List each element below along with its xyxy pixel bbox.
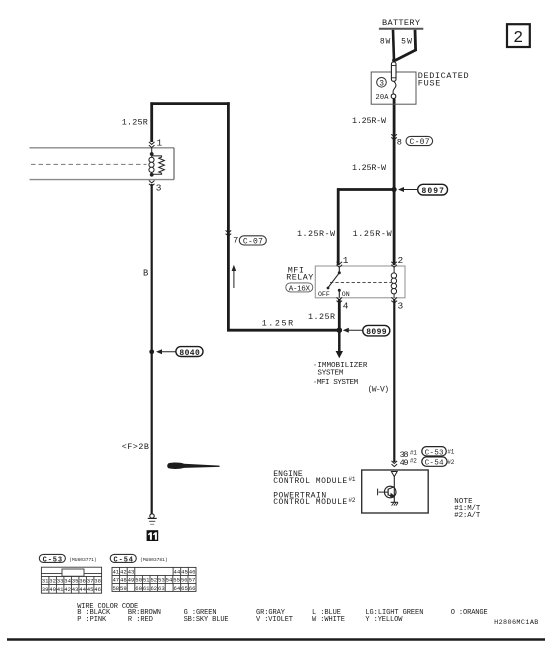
svg-text:#2: #2 (447, 459, 454, 466)
svg-text:48: 48 (120, 577, 127, 584)
svg-text:#1: #1 (410, 450, 417, 457)
svg-text:O :ORANGE: O :ORANGE (451, 609, 488, 617)
svg-text:62: 62 (150, 585, 157, 592)
svg-text:#1: #1 (447, 449, 454, 456)
svg-text:1.25R-W: 1.25R-W (352, 116, 387, 126)
svg-text:65: 65 (181, 585, 188, 592)
svg-text:8W: 8W (380, 37, 391, 46)
svg-text:64: 64 (174, 585, 181, 592)
svg-text:1.25R: 1.25R (308, 312, 335, 322)
svg-text:1: 1 (343, 255, 349, 266)
svg-text:31: 31 (42, 578, 49, 585)
svg-text:CONTROL MODULE: CONTROL MODULE (273, 498, 347, 507)
svg-text:20A: 20A (376, 94, 390, 102)
svg-text:(W-V): (W-V) (368, 385, 389, 394)
svg-text:66: 66 (189, 585, 196, 592)
svg-text:43: 43 (72, 586, 79, 593)
svg-text:Y :YELLOW: Y :YELLOW (365, 616, 403, 624)
svg-text:1.25R-W: 1.25R-W (353, 229, 393, 239)
svg-text:53: 53 (158, 577, 165, 584)
svg-text:(MU803771): (MU803771) (69, 557, 97, 563)
svg-text:2: 2 (513, 28, 523, 47)
svg-text:44: 44 (79, 586, 86, 593)
svg-text:41: 41 (57, 586, 64, 593)
svg-text:#2: #2 (349, 497, 356, 504)
svg-text:41: 41 (112, 568, 119, 575)
svg-text:C-53: C-53 (43, 556, 63, 564)
svg-text:RELAY: RELAY (286, 273, 313, 283)
svg-text:4: 4 (343, 301, 349, 312)
svg-text:34: 34 (64, 578, 71, 585)
svg-text:52: 52 (150, 577, 157, 584)
svg-text:58: 58 (112, 585, 119, 592)
svg-text:<F>2B: <F>2B (122, 442, 149, 452)
svg-text:BATTERY: BATTERY (382, 18, 420, 28)
svg-text:63: 63 (158, 585, 165, 592)
svg-text:C-53: C-53 (425, 449, 444, 457)
svg-text:38: 38 (94, 578, 101, 585)
svg-text:51: 51 (143, 577, 150, 584)
svg-text:49: 49 (128, 577, 135, 584)
svg-text:W :WHITE: W :WHITE (312, 616, 345, 624)
svg-text:C-07: C-07 (243, 237, 263, 246)
svg-text:47: 47 (112, 577, 119, 584)
svg-text:42: 42 (64, 586, 71, 593)
svg-text:39: 39 (42, 586, 49, 593)
svg-text:B: B (143, 268, 148, 278)
svg-text:H2806MC1AB: H2806MC1AB (494, 619, 538, 627)
svg-text:60: 60 (135, 585, 142, 592)
svg-text:43: 43 (128, 568, 135, 575)
svg-text:5W: 5W (401, 37, 412, 46)
svg-text:FUSE: FUSE (418, 79, 441, 89)
svg-text:8040: 8040 (179, 349, 200, 358)
svg-text:2: 2 (398, 255, 404, 266)
svg-text:8097: 8097 (422, 187, 445, 196)
svg-text:3: 3 (379, 79, 384, 88)
svg-text:3: 3 (398, 301, 404, 312)
svg-text:46: 46 (94, 586, 101, 593)
svg-text:C-07: C-07 (410, 138, 430, 147)
svg-text:1.25R-W: 1.25R-W (297, 229, 336, 239)
svg-text:57: 57 (189, 577, 196, 584)
svg-text:56: 56 (181, 577, 188, 584)
svg-text:·MFI SYSTEM: ·MFI SYSTEM (313, 379, 359, 387)
svg-text:3: 3 (156, 183, 162, 194)
svg-text:54: 54 (166, 577, 173, 584)
svg-text:1.25R: 1.25R (262, 319, 293, 329)
svg-text:36: 36 (79, 578, 86, 585)
svg-text:#1: #1 (349, 476, 356, 483)
svg-text:(MU803781): (MU803781) (140, 557, 168, 563)
svg-text:1.25R: 1.25R (122, 117, 148, 127)
svg-text:R :RED: R :RED (128, 616, 153, 624)
svg-text:8099: 8099 (366, 328, 387, 337)
svg-text:#2:A/T: #2:A/T (454, 512, 481, 520)
svg-text:1.25R-W: 1.25R-W (352, 163, 387, 173)
svg-text:35: 35 (72, 578, 79, 585)
svg-text:CONTROL MODULE: CONTROL MODULE (273, 477, 347, 486)
svg-text:A-16X: A-16X (289, 285, 311, 293)
svg-text:C-54: C-54 (425, 460, 444, 468)
svg-text:50: 50 (135, 577, 142, 584)
svg-text:45: 45 (181, 568, 188, 575)
svg-text:OFF: OFF (318, 291, 330, 298)
svg-text:45: 45 (87, 586, 94, 593)
svg-text:8: 8 (397, 137, 402, 147)
svg-text:59: 59 (120, 585, 127, 592)
svg-text:SYSTEM: SYSTEM (317, 370, 343, 378)
svg-text:49: 49 (400, 458, 409, 468)
svg-text:#2: #2 (410, 458, 417, 465)
svg-text:C-54: C-54 (114, 556, 134, 564)
svg-text:32: 32 (49, 578, 56, 585)
svg-text:46: 46 (189, 568, 196, 575)
svg-text:V :VIOLET: V :VIOLET (256, 616, 293, 624)
svg-text:P :PINK: P :PINK (77, 616, 107, 624)
svg-text:7: 7 (233, 236, 238, 246)
svg-text:ON: ON (342, 291, 350, 298)
svg-text:40: 40 (49, 586, 56, 593)
svg-text:55: 55 (173, 577, 180, 584)
svg-text:61: 61 (143, 585, 150, 592)
svg-text:37: 37 (87, 578, 94, 585)
svg-text:1: 1 (157, 137, 163, 148)
svg-text:SB:SKY BLUE: SB:SKY BLUE (184, 616, 229, 624)
svg-text:42: 42 (120, 568, 127, 575)
svg-text:44: 44 (174, 568, 181, 575)
svg-text:33: 33 (57, 578, 64, 585)
